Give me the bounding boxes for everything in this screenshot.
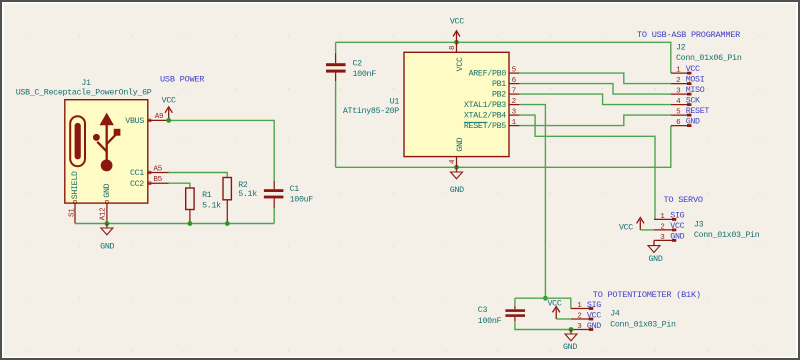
svg-text:VBUS: VBUS	[125, 117, 144, 126]
svg-text:J4: J4	[610, 309, 620, 318]
wire VCC to J3 pin 2	[640, 229, 654, 231]
svg-text:VCC: VCC	[450, 18, 464, 27]
svg-text:XTAL1/PB3: XTAL1/PB3	[464, 100, 506, 110]
svg-text:VCC: VCC	[587, 312, 601, 321]
svg-text:SCK: SCK	[686, 97, 700, 106]
svg-text:Conn_01x03_Pin: Conn_01x03_Pin	[694, 230, 760, 240]
svg-text:2: 2	[577, 313, 582, 321]
svg-text:A5: A5	[153, 165, 162, 173]
connector J4 Conn_01x03_Pin	[610, 309, 676, 329]
junction U1 pin4 / GND rail	[454, 165, 459, 170]
junction VBUS/VCC	[166, 118, 171, 123]
junction R2/GND rail	[225, 221, 230, 226]
junction R1/GND rail	[188, 221, 193, 226]
svg-text:USB_C_Receptacle_PowerOnly_6P: USB_C_Receptacle_PowerOnly_6P	[16, 87, 152, 97]
svg-text:3: 3	[512, 109, 517, 117]
svg-text:GND: GND	[686, 118, 700, 127]
svg-text:VCC: VCC	[547, 300, 561, 309]
svg-text:VCC: VCC	[162, 97, 176, 106]
svg-text:VCC: VCC	[619, 223, 633, 232]
svg-text:A9: A9	[155, 113, 164, 121]
U1 pin 8 VCC	[449, 42, 465, 71]
svg-text:AREF/PB0: AREF/PB0	[469, 69, 507, 79]
U1 pin 5 AREF/PB0	[469, 67, 520, 79]
connector J3 Conn_01x03_Pin	[694, 221, 760, 241]
svg-text:CC2: CC2	[130, 180, 144, 189]
junction XTAL1/PB3 / C3 / pot SIG	[543, 296, 548, 301]
power symbol VCC (servo)	[619, 218, 644, 233]
wire VCC to J4 pin 2	[556, 318, 571, 320]
wire C1 bottom to GND rail	[273, 208, 275, 224]
svg-text:USB POWER: USB POWER	[160, 74, 204, 84]
svg-text:CC1: CC1	[130, 169, 144, 178]
resistor R1	[186, 188, 221, 224]
svg-text:6: 6	[676, 119, 681, 127]
svg-text:ATtiny85-20P: ATtiny85-20P	[343, 106, 399, 116]
svg-text:Conn_01x03_Pin: Conn_01x03_Pin	[610, 319, 676, 329]
J2 pin 2 MOSI	[671, 76, 705, 85]
ground symbol (U1 bottom)	[450, 167, 464, 195]
wire XTAL2/PB4 to servo SIG	[519, 115, 655, 219]
J2 pin 5 RESET	[671, 107, 709, 116]
svg-text:TO USB-ASB PROGRAMMER: TO USB-ASB PROGRAMMER	[637, 30, 740, 40]
svg-text:1: 1	[577, 302, 582, 310]
power symbol VCC (potentiometer)	[547, 300, 561, 319]
svg-text:5: 5	[512, 67, 517, 75]
wire CC1 to R2	[169, 173, 228, 178]
wire C3 bottom to J4 GND	[515, 321, 571, 330]
pin A12 GND	[99, 183, 112, 223]
wire C3 top	[514, 298, 516, 306]
ground symbol (potentiometer)	[563, 330, 577, 352]
svg-text:VCC: VCC	[686, 65, 700, 74]
svg-text:1: 1	[660, 213, 665, 221]
J2 pin 6 GND	[671, 118, 700, 127]
svg-text:VCC: VCC	[456, 57, 465, 71]
J2 pin 3 MISO	[671, 86, 705, 95]
svg-text:7: 7	[512, 88, 516, 96]
svg-text:SIG: SIG	[587, 301, 601, 310]
svg-text:3: 3	[660, 234, 665, 242]
svg-text:1: 1	[512, 119, 517, 127]
J3 pin 2 VCC	[654, 222, 685, 231]
svg-text:A12: A12	[99, 207, 107, 221]
svg-text:Conn_01x06_Pin: Conn_01x06_Pin	[676, 53, 742, 63]
capacitor C2	[326, 53, 376, 81]
USB-C receptacle glyph	[70, 116, 85, 166]
svg-text:100nF: 100nF	[353, 70, 377, 79]
J4 pin 3 GND	[571, 322, 601, 331]
wire PB1 to MISO	[519, 84, 671, 95]
USB trident glyph	[93, 113, 120, 172]
J4 pin 2 VCC	[571, 312, 601, 321]
junction U1 pin8 / VCC rail	[454, 40, 459, 45]
svg-text:SIG: SIG	[670, 212, 684, 221]
pin S1 SHIELD	[69, 171, 81, 224]
svg-text:GND: GND	[103, 183, 112, 197]
svg-text:R1: R1	[202, 191, 212, 200]
wire VCC rail (top)	[336, 42, 671, 73]
svg-text:GND: GND	[100, 242, 114, 251]
svg-text:B5: B5	[153, 176, 162, 184]
U1 pin 1 RESET/PB5	[464, 119, 520, 131]
wire PB0 to MOSI	[519, 73, 671, 84]
svg-text:S1: S1	[69, 208, 77, 217]
svg-text:1: 1	[676, 66, 681, 74]
U1 pin 3 XTAL2/PB4	[464, 109, 520, 121]
svg-text:GND: GND	[587, 322, 601, 331]
svg-text:TO POTENTIOMETER (B1K): TO POTENTIOMETER (B1K)	[593, 290, 701, 300]
svg-text:100nF: 100nF	[478, 317, 502, 326]
wire RESET/PB5 to RESET	[519, 115, 671, 126]
svg-text:3: 3	[577, 323, 582, 331]
svg-text:GND: GND	[648, 255, 662, 264]
U1 pin 6 PB1	[492, 77, 519, 89]
svg-text:U1: U1	[390, 97, 400, 106]
capacitor C1	[264, 181, 313, 208]
junction A12/GND rail	[105, 221, 110, 226]
svg-text:PB2: PB2	[492, 91, 506, 100]
wire VBUS to C1	[169, 120, 275, 180]
wire XTAL1/PB3 to potentiometer SIG	[519, 105, 545, 299]
connector J2 Conn_01x06_Pin	[676, 43, 742, 63]
svg-text:2: 2	[660, 223, 665, 231]
wire C2 top to VCC rail	[335, 42, 337, 53]
svg-text:GND: GND	[450, 186, 464, 195]
svg-text:J1: J1	[81, 79, 91, 88]
svg-text:5: 5	[676, 108, 681, 116]
pin B5 CC2	[130, 176, 169, 189]
svg-text:MISO: MISO	[686, 86, 705, 95]
J2 pin 4 SCK	[671, 97, 700, 106]
junction J4 GND	[569, 327, 574, 332]
svg-text:C3: C3	[478, 306, 488, 315]
svg-text:PB1: PB1	[492, 80, 506, 89]
svg-text:100uF: 100uF	[290, 196, 314, 205]
svg-text:8: 8	[449, 45, 457, 50]
pin A9 VBUS	[125, 113, 168, 126]
wire PB2 to SCK	[519, 94, 671, 105]
wire pot SIG node	[515, 298, 571, 308]
svg-text:J2: J2	[676, 43, 686, 52]
U1 pin 7 PB2	[492, 88, 519, 100]
ground symbol (USB section)	[100, 224, 114, 252]
J3 pin 3 GND	[654, 233, 685, 242]
svg-text:GND: GND	[670, 233, 684, 242]
svg-text:RESET: RESET	[686, 107, 710, 116]
svg-text:C1: C1	[290, 185, 300, 194]
svg-text:C2: C2	[353, 59, 363, 68]
svg-text:GND: GND	[563, 343, 577, 352]
svg-text:VCC: VCC	[670, 222, 684, 231]
svg-text:XTAL2/PB4: XTAL2/PB4	[464, 111, 506, 121]
svg-text:J3: J3	[694, 221, 704, 230]
svg-text:SHIELD: SHIELD	[71, 171, 80, 199]
svg-text:6: 6	[512, 77, 517, 85]
wire GND rail (middle)	[336, 126, 671, 168]
wire GND rail (USB section)	[75, 223, 274, 225]
pin A5 CC1	[130, 165, 169, 178]
connector J1 USB_C_Receptacle_PowerOnly_6P	[16, 79, 152, 203]
svg-text:GND: GND	[456, 137, 465, 151]
U1 pin 2 XTAL1/PB3	[464, 98, 520, 110]
svg-text:TO SERVO: TO SERVO	[664, 195, 703, 205]
svg-text:4: 4	[449, 159, 457, 164]
power symbol VCC (U1 top)	[450, 18, 464, 43]
resistor R2	[223, 178, 257, 224]
J2 pin 1 VCC	[671, 65, 700, 74]
svg-text:3: 3	[676, 87, 681, 95]
MCU U1 ATtiny85-20P	[343, 52, 509, 156]
wire CC2 to R1	[169, 183, 190, 188]
svg-text:4: 4	[676, 98, 681, 106]
J3 pin 1 SIG	[654, 212, 685, 221]
U1 pin 4 GND	[449, 137, 465, 167]
wire C2 bottom to GND rail	[335, 81, 337, 167]
ground symbol (servo)	[648, 240, 663, 264]
power symbol VCC (USB section)	[162, 97, 176, 121]
capacitor C3	[478, 306, 525, 326]
J4 pin 1 SIG	[571, 301, 601, 310]
svg-text:2: 2	[676, 77, 681, 85]
svg-text:5.1k: 5.1k	[202, 201, 221, 211]
svg-text:2: 2	[512, 98, 517, 106]
svg-text:MOSI: MOSI	[686, 76, 705, 85]
svg-text:5.1k: 5.1k	[238, 189, 257, 199]
